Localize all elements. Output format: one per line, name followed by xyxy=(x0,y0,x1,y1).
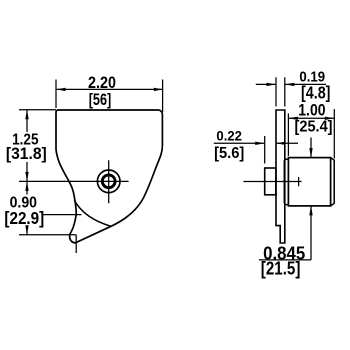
svg-text:[31.8]: [31.8] xyxy=(6,144,47,163)
svg-text:0.22: 0.22 xyxy=(216,128,242,143)
svg-text:[21.5]: [21.5] xyxy=(261,258,301,279)
svg-text:[5.6]: [5.6] xyxy=(214,145,244,162)
svg-text:[25.4]: [25.4] xyxy=(295,118,333,136)
svg-text:[56]: [56] xyxy=(89,91,112,109)
svg-text:[22.9]: [22.9] xyxy=(4,209,44,228)
svg-text:0.19: 0.19 xyxy=(299,68,325,85)
svg-text:2.20: 2.20 xyxy=(88,74,116,92)
svg-text:[4.8]: [4.8] xyxy=(301,84,331,103)
